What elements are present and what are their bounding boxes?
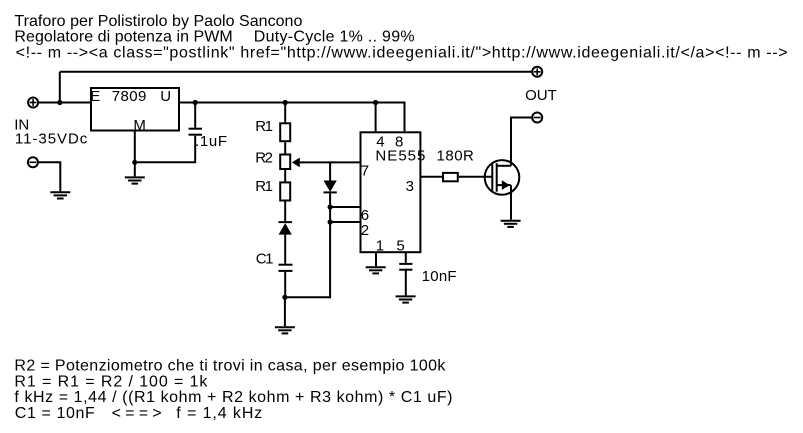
transistor Q1 MOSFET (485, 160, 520, 195)
svg-text:NE555: NE555 (375, 148, 425, 165)
ground pin1 (366, 267, 386, 273)
svg-text:180R: 180R (437, 147, 475, 164)
svg-text:f kHz = 1,44 / ((R1 kohm + R2: f kHz = 1,44 / ((R1 kohm + R2 kohm + R3 … (14, 389, 452, 406)
svg-text:7: 7 (361, 162, 369, 179)
svg-text:11-35VDc: 11-35VDc (15, 131, 88, 148)
wire R1-R2 (284, 142, 286, 153)
diode D2 (cathode down) (324, 181, 337, 193)
svg-text:U: U (160, 88, 171, 105)
potentiometer R2 (280, 155, 290, 170)
capacitor C1 (279, 265, 293, 271)
svg-text:<==>: <==> (112, 405, 162, 422)
wire pin 3 to resistor (420, 176, 443, 178)
svg-text:7809: 7809 (112, 88, 147, 105)
wire junction to capacitor (135, 136, 195, 163)
wire C1 to ground node (284, 271, 286, 297)
ground 10nF (396, 296, 416, 302)
svg-text:OUT: OUT (525, 87, 557, 104)
svg-text:R1: R1 (255, 178, 273, 195)
wire pin 4 drop (375, 103, 377, 132)
svg-text:10nF: 10nF (422, 268, 457, 285)
ground MOSFET (501, 221, 521, 227)
node junction IN+/top rail (57, 100, 62, 105)
wire rail to R1 (284, 103, 286, 123)
terminal IN- (28, 157, 38, 167)
wire R1 to diode (284, 201, 286, 222)
terminal IN+ (28, 98, 38, 108)
svg-text:f = 1,4 kHz: f = 1,4 kHz (176, 405, 262, 422)
svg-text:C1 = 10nF: C1 = 10nF (15, 405, 95, 422)
resistor R1 (bottom) (280, 182, 290, 200)
capacitor 10nF on pin 5 (399, 252, 412, 295)
terminal OUT- (532, 113, 542, 123)
wire wiper column (329, 162, 331, 180)
wire source to ground (510, 185, 512, 220)
ground IN- (50, 192, 70, 198)
wire resistor to gate (459, 176, 493, 178)
resistor 180R (443, 173, 458, 181)
svg-text:1: 1 (376, 238, 384, 255)
wire to pin 6 (330, 206, 360, 208)
terminal OUT+ (532, 67, 542, 77)
svg-text:2: 2 (361, 222, 369, 239)
resistor R1 (top) (280, 123, 290, 141)
wire up to top rail (59, 72, 61, 103)
node capacitor tap (193, 100, 198, 105)
ground regulator (125, 177, 145, 183)
node pin4 tap (373, 100, 378, 105)
svg-text:Duty-Cycle 1% .. 99%: Duty-Cycle 1% .. 99% (254, 29, 415, 46)
svg-text:C1: C1 (256, 250, 274, 267)
node M/capacitor junction (132, 160, 137, 165)
svg-text:R1: R1 (255, 118, 273, 135)
svg-text:Traforo per Polistirolo by Pao: Traforo per Polistirolo by Paolo Sancono (14, 13, 302, 30)
wire junction down (284, 297, 286, 326)
wire IN+ to regulator (38, 102, 91, 104)
potentiometer R2 wiper arrow (292, 158, 300, 168)
node R chain tap (283, 100, 288, 105)
svg-text:R1 = R1 = R2 / 100 = 1k: R1 = R1 = R2 / 100 = 1k (14, 373, 208, 390)
regulator U1 7809 (91, 88, 179, 131)
wire to pin 2 (330, 221, 360, 223)
wire pin 1 to ground (375, 252, 377, 266)
svg-text:Regolatore di potenza in PWM: Regolatore di potenza in PWM (14, 29, 232, 46)
svg-text:3: 3 (406, 178, 414, 195)
svg-text:<!-- m --><a class="postlink": <!-- m --><a class="postlink" href="http… (16, 44, 788, 61)
ground C1 (275, 327, 295, 333)
diode D1 (cathode up) (279, 222, 292, 235)
wire diode to C1 (284, 235, 286, 264)
wire R2-R1 (284, 170, 286, 182)
op-amp U2 NE555 box (361, 132, 421, 252)
svg-text:5: 5 (396, 238, 404, 255)
node C1 ground junction (282, 295, 287, 300)
svg-text:.1uF: .1uF (195, 133, 227, 150)
svg-text:E: E (90, 88, 100, 105)
node pin6 junction (328, 204, 333, 209)
node pin2 junction (328, 219, 333, 224)
svg-text:R2: R2 (255, 150, 273, 167)
wire M pin to ground (134, 131, 136, 177)
wire drain to OUT- (511, 118, 531, 166)
capacitor C .1uF (189, 103, 203, 135)
wire IN- to ground (38, 162, 60, 191)
wire junction to middle column (285, 193, 330, 297)
wire regulator output rail (179, 103, 405, 132)
wire top rail (60, 71, 532, 73)
svg-text:R2 = Potenziometro che ti trov: R2 = Potenziometro che ti trovi in casa,… (14, 358, 446, 375)
wire wiper to pin 7 (300, 161, 361, 163)
